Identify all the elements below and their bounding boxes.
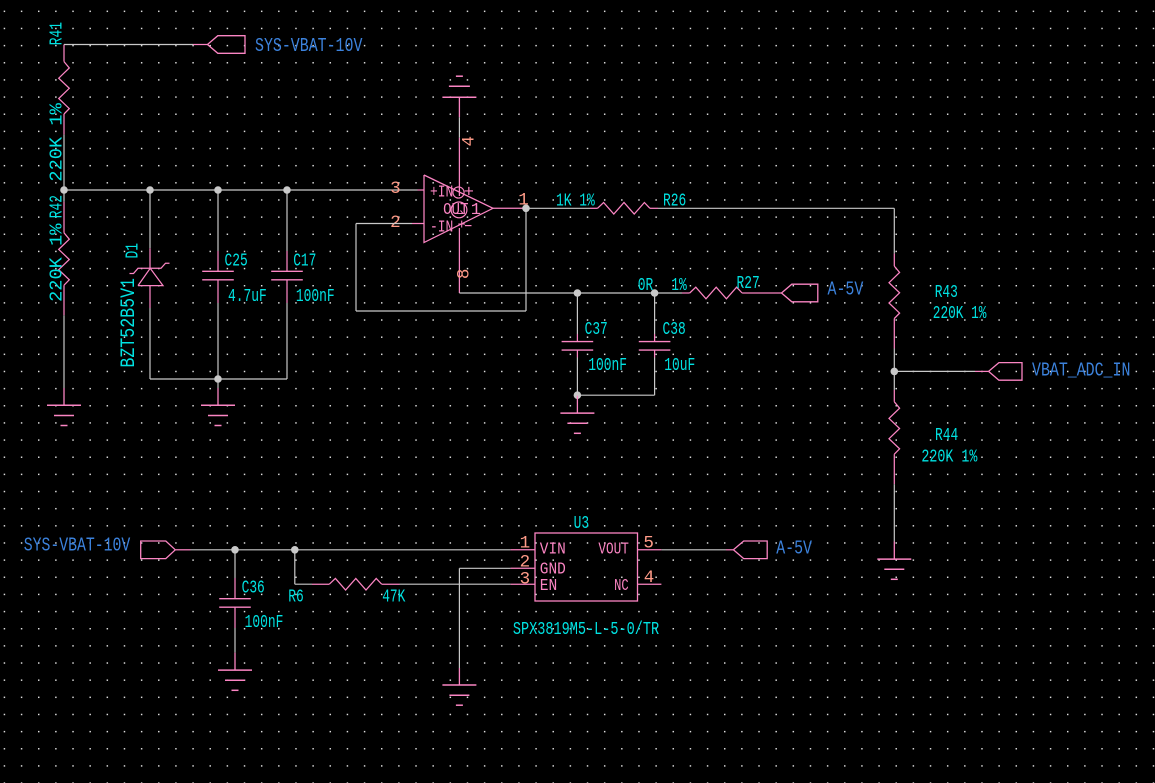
ground	[893, 542, 895, 560]
resistor R43	[893, 254, 895, 267]
pin 2 GND	[511, 567, 535, 569]
svg-text:4: 4	[644, 568, 655, 588]
pin 8	[458, 228, 460, 293]
svg-text:R41: R41	[48, 22, 68, 45]
svg-text:5: 5	[643, 534, 654, 554]
wire	[356, 223, 412, 225]
node junction	[146, 186, 154, 194]
wire	[576, 293, 578, 334]
resistor R44	[893, 390, 895, 402]
svg-text:SYS-VBAT-10V: SYS-VBAT-10V	[24, 535, 131, 557]
wire	[525, 208, 527, 311]
wire	[355, 224, 357, 312]
wire	[893, 208, 895, 253]
node junction	[574, 289, 582, 297]
wire	[459, 292, 682, 294]
wire	[893, 349, 895, 372]
svg-text:C25: C25	[225, 252, 248, 272]
op-amp U1 body	[424, 175, 493, 243]
diode D1	[149, 248, 151, 268]
svg-text:+IN: +IN	[430, 184, 453, 203]
wire	[400, 583, 511, 585]
resistor R6	[312, 583, 329, 585]
ground	[217, 388, 219, 405]
svg-text:R44: R44	[935, 426, 958, 446]
svg-text:D1: D1	[124, 243, 144, 259]
wire bus	[64, 189, 418, 191]
pin 2	[412, 223, 424, 225]
svg-text:SPX3819M5-L-5-0/TR: SPX3819M5-L-5-0/TR	[513, 620, 659, 640]
svg-text:A-5V: A-5V	[828, 278, 864, 300]
wire	[175, 549, 190, 551]
svg-text:-IN: -IN	[430, 218, 453, 237]
node junction	[60, 186, 68, 194]
power flag VBAT_ADC_IN	[989, 363, 1022, 381]
wire	[661, 549, 726, 551]
wire	[64, 44, 193, 46]
node junction	[291, 546, 299, 554]
svg-text:100nF: 100nF	[296, 287, 335, 307]
svg-text:220K 1%: 220K 1%	[921, 448, 977, 468]
wire	[458, 117, 460, 138]
pin 3	[418, 189, 425, 191]
node junction	[522, 205, 530, 213]
IC U3 body	[535, 533, 638, 601]
capacitor C38	[654, 334, 656, 342]
capacitor C37	[576, 334, 578, 342]
wire	[63, 190, 65, 202]
svg-text:220K 1%: 220K 1%	[48, 223, 68, 302]
wire	[191, 549, 511, 551]
wire	[286, 190, 288, 251]
svg-text:SYS-VBAT-10V: SYS-VBAT-10V	[255, 35, 363, 57]
wire	[149, 308, 151, 379]
pin 3 EN	[511, 583, 535, 585]
wire	[458, 568, 460, 668]
ground	[458, 668, 460, 685]
svg-text:A-5V: A-5V	[776, 538, 812, 560]
svg-text:R6: R6	[288, 588, 304, 608]
ground	[63, 388, 65, 405]
wire	[150, 378, 287, 380]
node junction	[283, 186, 291, 194]
svg-text:3: 3	[390, 179, 401, 199]
svg-text:U3: U3	[574, 514, 590, 534]
wire	[975, 370, 989, 372]
svg-text:VOUT: VOUT	[598, 541, 629, 560]
wire	[526, 207, 590, 209]
svg-text:C38: C38	[663, 320, 686, 340]
ground	[576, 396, 578, 414]
svg-text:47K: 47K	[382, 588, 405, 608]
wire	[893, 484, 895, 541]
pin 4	[458, 138, 460, 196]
wire	[286, 303, 288, 379]
wire	[63, 315, 65, 388]
power flag SYS-VBAT-10V input	[141, 541, 176, 559]
resistor R26	[590, 207, 598, 209]
svg-text:R42: R42	[48, 195, 68, 218]
wire	[217, 303, 219, 379]
svg-text:C36: C36	[242, 579, 265, 599]
wire	[894, 370, 975, 372]
pin 4 NC	[638, 583, 662, 585]
wire	[356, 310, 526, 312]
wire	[294, 550, 296, 584]
svg-text:EN: EN	[540, 577, 558, 596]
wire	[577, 394, 654, 396]
svg-text:100nF: 100nF	[588, 356, 627, 376]
pin 5 VOUT	[638, 549, 662, 551]
node junction	[651, 289, 659, 297]
ground	[458, 97, 460, 117]
wire	[63, 135, 65, 190]
svg-text:220K 1%: 220K 1%	[933, 304, 987, 324]
svg-text:VIN: VIN	[540, 541, 566, 560]
svg-text:3: 3	[520, 570, 531, 590]
pin 1	[493, 207, 526, 209]
svg-text:4: 4	[459, 136, 479, 147]
wire	[893, 371, 895, 390]
wire	[654, 293, 656, 334]
svg-text:1K 1%: 1K 1%	[556, 191, 595, 211]
capacitor C17	[286, 251, 288, 271]
svg-text:1%: 1%	[671, 276, 687, 296]
resistor R27	[682, 292, 690, 294]
svg-text:BZT52B5V1: BZT52B5V1	[118, 278, 141, 368]
svg-text:R43: R43	[935, 283, 958, 303]
svg-text:4.7uF: 4.7uF	[228, 287, 267, 307]
wire	[726, 549, 733, 551]
wire	[193, 44, 208, 46]
wire	[459, 567, 510, 569]
power flag SYS-VBAT-10V	[208, 36, 246, 54]
wire	[149, 190, 151, 248]
wire	[234, 628, 236, 653]
wire	[234, 550, 236, 578]
svg-text:C17: C17	[293, 252, 316, 272]
wire	[295, 583, 312, 585]
svg-text:VBAT_ADC_IN: VBAT_ADC_IN	[1032, 359, 1130, 381]
node junction	[574, 391, 582, 399]
svg-text:1: 1	[471, 201, 481, 220]
resistor R42	[63, 202, 65, 233]
svg-text:220K 1%: 220K 1%	[48, 103, 68, 182]
wire	[576, 358, 578, 396]
wire	[658, 207, 894, 209]
node junction	[231, 546, 239, 554]
svg-text:+: +	[458, 218, 466, 234]
svg-text:+: +	[464, 184, 474, 203]
pin 1 VIN	[511, 549, 535, 551]
svg-text:C37: C37	[585, 320, 608, 340]
capacitor C36	[234, 578, 236, 599]
wire	[654, 358, 656, 396]
node junction	[214, 186, 222, 194]
resistor R41	[63, 45, 65, 62]
wire	[217, 190, 219, 251]
svg-text:1: 1	[520, 534, 531, 554]
power flag A-5V (U3 out)	[733, 541, 767, 559]
wire	[217, 379, 219, 388]
svg-text:R27: R27	[737, 274, 760, 294]
capacitor C25	[217, 251, 219, 271]
svg-text:NC: NC	[614, 577, 629, 596]
power flag A-5V	[782, 284, 818, 302]
svg-text:0R: 0R	[638, 276, 654, 296]
node junction	[214, 375, 222, 383]
ground	[234, 653, 236, 671]
svg-text:8: 8	[454, 269, 474, 280]
svg-text:100nF: 100nF	[245, 613, 284, 633]
node junction	[891, 368, 899, 376]
svg-text:10uF: 10uF	[664, 356, 695, 376]
